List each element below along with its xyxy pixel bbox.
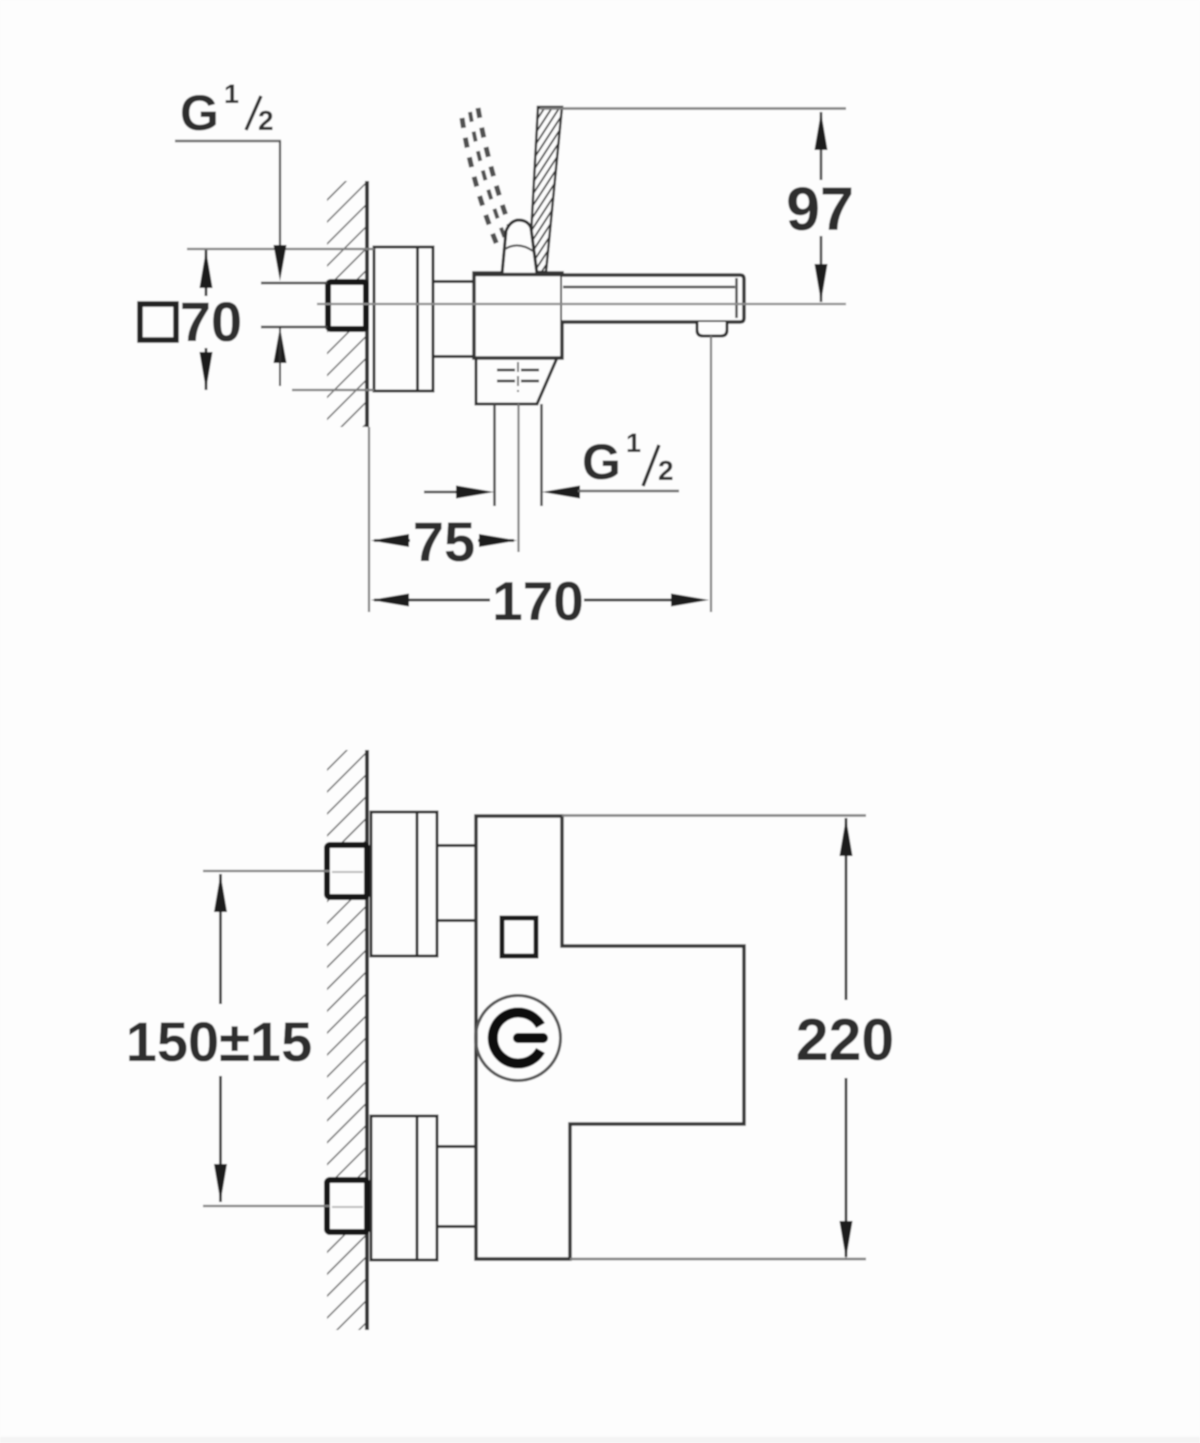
wall nuts (front) xyxy=(327,845,367,897)
dashed thread marks in block xyxy=(497,370,539,381)
170 dimension xyxy=(374,599,490,602)
G 1/2 top leader xyxy=(175,140,281,143)
extension line spout outlet (top view) xyxy=(710,336,712,612)
extension line bottom inlet axis (front view) xyxy=(203,1205,330,1207)
escutcheon (side view) xyxy=(374,247,433,391)
extension line escutcheon top (top view) xyxy=(187,248,374,250)
extension line lever top (top view) xyxy=(540,107,846,109)
svg-text:1: 1 xyxy=(626,428,641,458)
shanks (front) xyxy=(437,846,476,1227)
extension line wall face (top view) xyxy=(368,427,370,612)
square button xyxy=(502,918,536,956)
extension line body top (front view) xyxy=(562,814,866,816)
lever (side view, hatched) xyxy=(529,107,562,272)
wall nut (side view) xyxy=(328,282,366,329)
220 dimension xyxy=(845,818,848,1000)
spout (side view) xyxy=(562,275,744,322)
wall hatching (front view) xyxy=(327,750,368,1330)
svg-text:150±15: 150±15 xyxy=(126,1010,312,1073)
aerator xyxy=(697,322,727,336)
svg-text:170: 170 xyxy=(492,570,584,632)
svg-text:G: G xyxy=(582,434,621,490)
lever phantom position (dashed) xyxy=(462,108,514,252)
G 1/2 texts xyxy=(180,79,674,490)
75 dimension xyxy=(374,539,410,542)
G 1/2 middle dimension (shower outlet) xyxy=(424,491,460,494)
body (front view) xyxy=(476,816,744,1259)
97 dimension xyxy=(820,112,823,302)
shower outlet thread lines xyxy=(493,404,496,506)
joystick base xyxy=(502,220,537,274)
svg-text:2: 2 xyxy=(258,105,274,136)
extension line nut bottom (top view) xyxy=(261,326,327,329)
svg-text:97: 97 xyxy=(786,175,854,243)
shank (side view) xyxy=(433,280,474,283)
svg-text:2: 2 xyxy=(658,455,674,486)
svg-text:G: G xyxy=(180,85,219,141)
svg-text:1: 1 xyxy=(224,79,239,109)
extension line top inlet axis (front view) xyxy=(203,870,330,872)
150±15 dimension xyxy=(219,874,222,1004)
extension line nut top (top view) xyxy=(261,282,327,285)
check valve block below body xyxy=(476,358,557,404)
wall hatching (top view) xyxy=(327,181,368,427)
knob xyxy=(476,996,561,1081)
centerline (axis, top view) xyxy=(317,303,846,305)
svg-text:75: 75 xyxy=(413,510,475,573)
extension line escutcheon bottom (top view) xyxy=(292,389,374,391)
body (side view) xyxy=(474,273,562,358)
wall face line (top view) xyxy=(365,181,369,427)
svg-text:220: 220 xyxy=(796,1007,894,1073)
extension line body bottom (front view) xyxy=(570,1258,866,1260)
nut lower arrow xyxy=(274,327,287,363)
escutcheons (front) xyxy=(371,812,437,1260)
svg-text:70: 70 xyxy=(180,290,242,353)
70 dimension xyxy=(205,250,208,296)
